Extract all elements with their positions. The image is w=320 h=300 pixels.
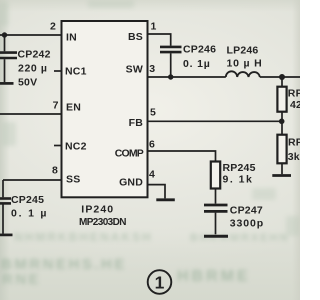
- pin NC1 stub: [54, 70, 62, 72]
- svg-text:IN: IN: [66, 32, 77, 44]
- figure number circle: [148, 270, 172, 294]
- svg-text:0. 1µ: 0. 1µ: [183, 58, 211, 70]
- wire EN rail (pin 7): [0, 113, 62, 115]
- svg-text:RP24: RP24: [288, 88, 300, 100]
- svg-text:NC2: NC2: [65, 141, 87, 153]
- svg-text:EN: EN: [66, 102, 81, 114]
- svg-text:NC1: NC1: [65, 66, 87, 78]
- capacitor CP246 plates: [160, 47, 182, 52]
- wire IN rail (pin 2): [0, 34, 62, 36]
- svg-text:SW: SW: [126, 64, 143, 76]
- svg-text:0. 1 µ: 0. 1 µ: [11, 208, 48, 220]
- svg-text:COMP: COMP: [115, 148, 144, 160]
- wire CP247 bottom lead: [215, 213, 217, 235]
- svg-text:1: 1: [151, 21, 157, 33]
- svg-text:SS: SS: [66, 174, 80, 186]
- inductor LP246: [226, 71, 260, 77]
- wire COMP (pin 6): [148, 151, 216, 162]
- svg-text:RP24: RP24: [288, 137, 300, 149]
- node FB divider junction: [279, 119, 285, 125]
- svg-text:7: 7: [53, 100, 59, 112]
- svg-text:LP246: LP246: [227, 45, 259, 57]
- svg-text:CP247: CP247: [230, 205, 263, 217]
- pin NC2 stub: [54, 145, 62, 147]
- ground below GND pin: [156, 198, 175, 201]
- node output junction: [279, 74, 285, 80]
- wire R lower bottom lead: [281, 163, 283, 174]
- ground below CP245: [0, 234, 13, 237]
- svg-text:RP245: RP245: [223, 162, 256, 174]
- svg-text:3: 3: [149, 63, 155, 75]
- svg-text:220 µ: 220 µ: [18, 63, 48, 75]
- wire CP245 bottom lead: [2, 205, 4, 234]
- svg-text:10 µ H: 10 µ H: [227, 58, 263, 70]
- svg-text:CP242: CP242: [18, 49, 51, 61]
- op-amp U1 IP240 MP2303DN body: [62, 21, 148, 197]
- svg-text:FB: FB: [129, 117, 144, 129]
- svg-text:5: 5: [150, 107, 156, 119]
- wire R upper bottom lead: [281, 112, 283, 135]
- capacitor CP245 plates: [0, 199, 11, 204]
- svg-text:1: 1: [155, 273, 165, 293]
- wire BS (pin 1): [148, 34, 171, 46]
- wire CP245 top lead: [2, 180, 4, 197]
- wire CP242 top lead: [4, 35, 6, 51]
- svg-text:CP246: CP246: [183, 44, 216, 56]
- node SW/CP246 junction: [168, 74, 173, 79]
- resistor RP247 lower divider 3k: [277, 135, 286, 164]
- wire output rail: [260, 76, 300, 78]
- wire R upper top lead: [281, 77, 283, 87]
- svg-text:2: 2: [50, 21, 56, 33]
- svg-text:3300p: 3300p: [230, 218, 264, 230]
- wire CP242 bottom lead: [4, 59, 6, 82]
- ground below CP242: [0, 82, 14, 85]
- svg-text:50V: 50V: [18, 77, 37, 89]
- svg-text:9. 1k: 9. 1k: [223, 174, 254, 186]
- wire RP245 to CP247: [215, 189, 217, 204]
- svg-text:IP240: IP240: [81, 204, 114, 216]
- ground below 3k resistor: [272, 174, 291, 177]
- resistor RP246 upper divider: [277, 87, 286, 112]
- wire SW rail (pin 3): [148, 76, 226, 78]
- node input junction: [2, 32, 7, 37]
- svg-text:420: 420: [290, 99, 300, 111]
- wire FB rail (pin 5): [148, 120, 282, 122]
- svg-text:4: 4: [149, 169, 155, 181]
- svg-text:BS: BS: [128, 31, 143, 43]
- svg-text:GND: GND: [119, 177, 143, 189]
- wire GND (pin 4): [148, 185, 166, 199]
- svg-text:8: 8: [52, 165, 58, 177]
- svg-text:MP2303DN: MP2303DN: [79, 217, 126, 228]
- svg-text:3k: 3k: [288, 151, 300, 163]
- capacitor C P242 plates: [0, 53, 17, 58]
- ground below CP247: [204, 235, 228, 238]
- wire SS rail (pin 8): [3, 179, 62, 181]
- capacitor CP247 plates: [204, 205, 228, 211]
- svg-text:CP245: CP245: [11, 194, 44, 206]
- wire CP246 bottom lead: [170, 53, 172, 77]
- svg-text:6: 6: [149, 139, 155, 151]
- bleed-through text blobs: [0, 0, 300, 1]
- resistor RP245 9.1k: [211, 162, 220, 189]
